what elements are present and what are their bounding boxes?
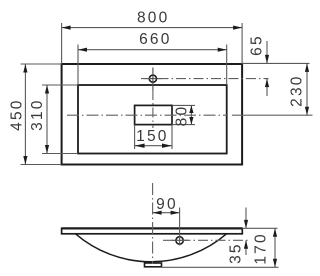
faucet hole (top view) bbox=[149, 75, 156, 82]
dim 310 line bbox=[46, 85, 48, 154]
bowl curve bbox=[76, 234, 227, 262]
dim 170 top ref extension (slab top extended right) bbox=[242, 227, 277, 229]
dim 65 top ref extension (top edge extended right) bbox=[242, 62, 309, 64]
dim 230 arrow bottom bbox=[305, 107, 309, 116]
svg-text:310: 310 bbox=[29, 98, 46, 130]
centerline horizontal main right extension bbox=[232, 114, 313, 116]
dim 150 extension left bbox=[134, 125, 136, 149]
dim 450 arrow bottom bbox=[23, 156, 27, 165]
svg-text:450: 450 bbox=[8, 98, 25, 130]
svg-text:65: 65 bbox=[248, 34, 265, 56]
dim 310 extension top bbox=[42, 84, 78, 86]
dim 35 lower arrow segment bbox=[245, 240, 247, 255]
front centerline horizontal (through hole) bbox=[163, 239, 250, 241]
dim 170 line bbox=[274, 228, 276, 267]
inner rect (basin bowl 660x310) bbox=[78, 85, 227, 154]
svg-text:170: 170 bbox=[253, 232, 270, 264]
dim 660 line bbox=[78, 49, 227, 51]
svg-text:90: 90 bbox=[156, 196, 178, 213]
dim 310 arrow bottom bbox=[45, 145, 49, 154]
faucet hole crosshair horizontal bbox=[145, 78, 162, 80]
dim 800 line bbox=[62, 27, 243, 29]
centerline vertical (top view) bbox=[152, 90, 154, 128]
dim 80 line bbox=[190, 105, 192, 124]
faucet hole crosshair vertical bbox=[152, 68, 154, 91]
dim 310 arrow top bbox=[45, 85, 49, 94]
dim 230 line bbox=[306, 63, 308, 115]
slab (countertop edge) bbox=[62, 228, 243, 233]
svg-text:800: 800 bbox=[137, 9, 169, 26]
svg-text:80: 80 bbox=[173, 105, 190, 127]
dim 450 extension bottom bbox=[21, 164, 62, 166]
centerline horizontal main bbox=[67, 114, 228, 116]
dim 35 upper arrow segment bbox=[245, 208, 247, 229]
front hole crosshair horizontal bbox=[172, 239, 189, 241]
small rect (overflow box 150x80) bbox=[135, 105, 172, 124]
dim 170 bottom ref extension bbox=[162, 266, 279, 268]
dim 450 extension top bbox=[21, 63, 62, 65]
dim 65 lower arrow segment bbox=[266, 79, 268, 96]
svg-text:150: 150 bbox=[136, 128, 168, 145]
dim 450 arrow top bbox=[23, 64, 27, 73]
dim 150 line bbox=[135, 145, 172, 147]
faucet hole (front view) bbox=[176, 237, 183, 244]
dim 660 extension left bbox=[77, 45, 79, 86]
dim 800 extension right bbox=[241, 23, 243, 64]
dim 800 extension left bbox=[61, 23, 63, 64]
outer rect (basin top view outline 800x450) bbox=[62, 64, 243, 165]
dim 660 extension right bbox=[226, 45, 228, 86]
dim 660 arrow right bbox=[218, 48, 227, 52]
dim 800 arrow right bbox=[233, 26, 242, 30]
dim 310 extension bottom bbox=[42, 153, 78, 155]
svg-text:35: 35 bbox=[228, 242, 245, 264]
dim 80 extension top bbox=[172, 104, 195, 106]
dim 90 line bbox=[153, 212, 180, 214]
dim 90 extension right (to hole) bbox=[179, 208, 181, 246]
drain stub bbox=[145, 263, 162, 267]
svg-text:660: 660 bbox=[139, 31, 171, 48]
centerline faucet horizontal bbox=[141, 78, 269, 80]
dim 150 extension right bbox=[171, 125, 173, 149]
dim 230 arrow top bbox=[305, 63, 309, 72]
dim 80 extension bottom bbox=[172, 124, 195, 126]
dim 800 arrow left bbox=[62, 26, 71, 30]
front centerline vertical bbox=[152, 183, 154, 264]
slab top edge emphasis bbox=[62, 227, 243, 229]
dim 65 upper arrow segment bbox=[266, 41, 268, 63]
dim 450 line bbox=[24, 64, 26, 165]
dim 660 arrow left bbox=[78, 48, 87, 52]
svg-text:230: 230 bbox=[288, 74, 305, 106]
